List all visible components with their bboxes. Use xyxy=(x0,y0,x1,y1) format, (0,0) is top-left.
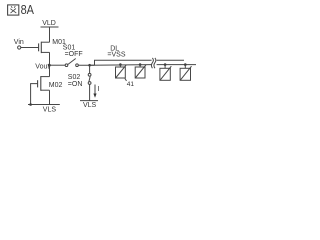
svg-text:VLD: VLD xyxy=(42,20,56,27)
VLS bar right xyxy=(80,100,98,102)
svg-text:VLS: VLS xyxy=(83,102,97,109)
pixel cell box3 xyxy=(160,63,171,80)
label =VSS xyxy=(107,52,125,59)
current arrow I xyxy=(93,85,99,98)
label VLS right xyxy=(83,102,97,109)
pixel cell 41 box1 xyxy=(116,63,127,78)
pixel cell box2 xyxy=(135,63,146,78)
pixel cell box4 xyxy=(180,63,191,80)
switch S02 closed xyxy=(88,73,91,84)
transistor M02 xyxy=(38,76,50,91)
label VLS left xyxy=(43,107,57,114)
figure title Zu 8A xyxy=(8,2,35,17)
wire VLD rail to M01 drain xyxy=(49,27,51,42)
wire corner up to data line DL xyxy=(95,60,152,65)
node junction dot to S02 branch xyxy=(88,64,91,67)
wire S02 branch down xyxy=(89,65,91,73)
wire Vout node to M02 drain xyxy=(49,65,51,76)
switch S01 open xyxy=(65,59,78,67)
input terminal Vin xyxy=(14,39,24,49)
label Vout xyxy=(35,64,49,71)
svg-text:I: I xyxy=(97,86,99,93)
svg-text:Vin: Vin xyxy=(14,39,24,46)
transistor M01 xyxy=(39,42,50,53)
wire M01 source to Vout node xyxy=(49,52,51,65)
node Vout junction dot xyxy=(48,64,51,67)
wire S01 to junction xyxy=(78,64,94,66)
lower pixel line left part xyxy=(90,64,152,67)
svg-text:8A: 8A xyxy=(21,2,35,17)
wire M02 source to VLS rail xyxy=(49,90,51,104)
svg-text:41: 41 xyxy=(127,81,135,88)
lower pixel line right part xyxy=(157,64,196,66)
label M01 xyxy=(52,39,66,46)
label 41 with leader xyxy=(125,79,135,89)
label =OFF xyxy=(65,51,83,58)
svg-text:=VSS: =VSS xyxy=(107,52,125,59)
label DL xyxy=(110,45,119,52)
line break mark xyxy=(151,58,155,68)
wire Vin to M01 gate xyxy=(21,47,39,49)
svg-text:=OFF: =OFF xyxy=(65,51,83,58)
svg-text:Vout: Vout xyxy=(35,64,49,71)
svg-text:M02: M02 xyxy=(49,82,63,89)
wire Vout node to switch S01 xyxy=(50,64,66,66)
label S01 xyxy=(63,45,76,52)
label M02 xyxy=(49,82,63,89)
node dot gate tie to VLS xyxy=(29,103,32,106)
label =ON xyxy=(68,81,83,88)
data line DL right part xyxy=(157,59,184,61)
wire M02 gate to VLS rail xyxy=(31,84,38,105)
VLD power rail xyxy=(41,26,59,28)
wire S02 to VLS bar xyxy=(89,84,91,100)
svg-text:VLS: VLS xyxy=(43,107,57,114)
net label VLD xyxy=(42,20,56,27)
svg-text:=ON: =ON xyxy=(68,81,83,88)
VLS power rail left xyxy=(28,104,60,106)
label S02 xyxy=(68,74,81,81)
